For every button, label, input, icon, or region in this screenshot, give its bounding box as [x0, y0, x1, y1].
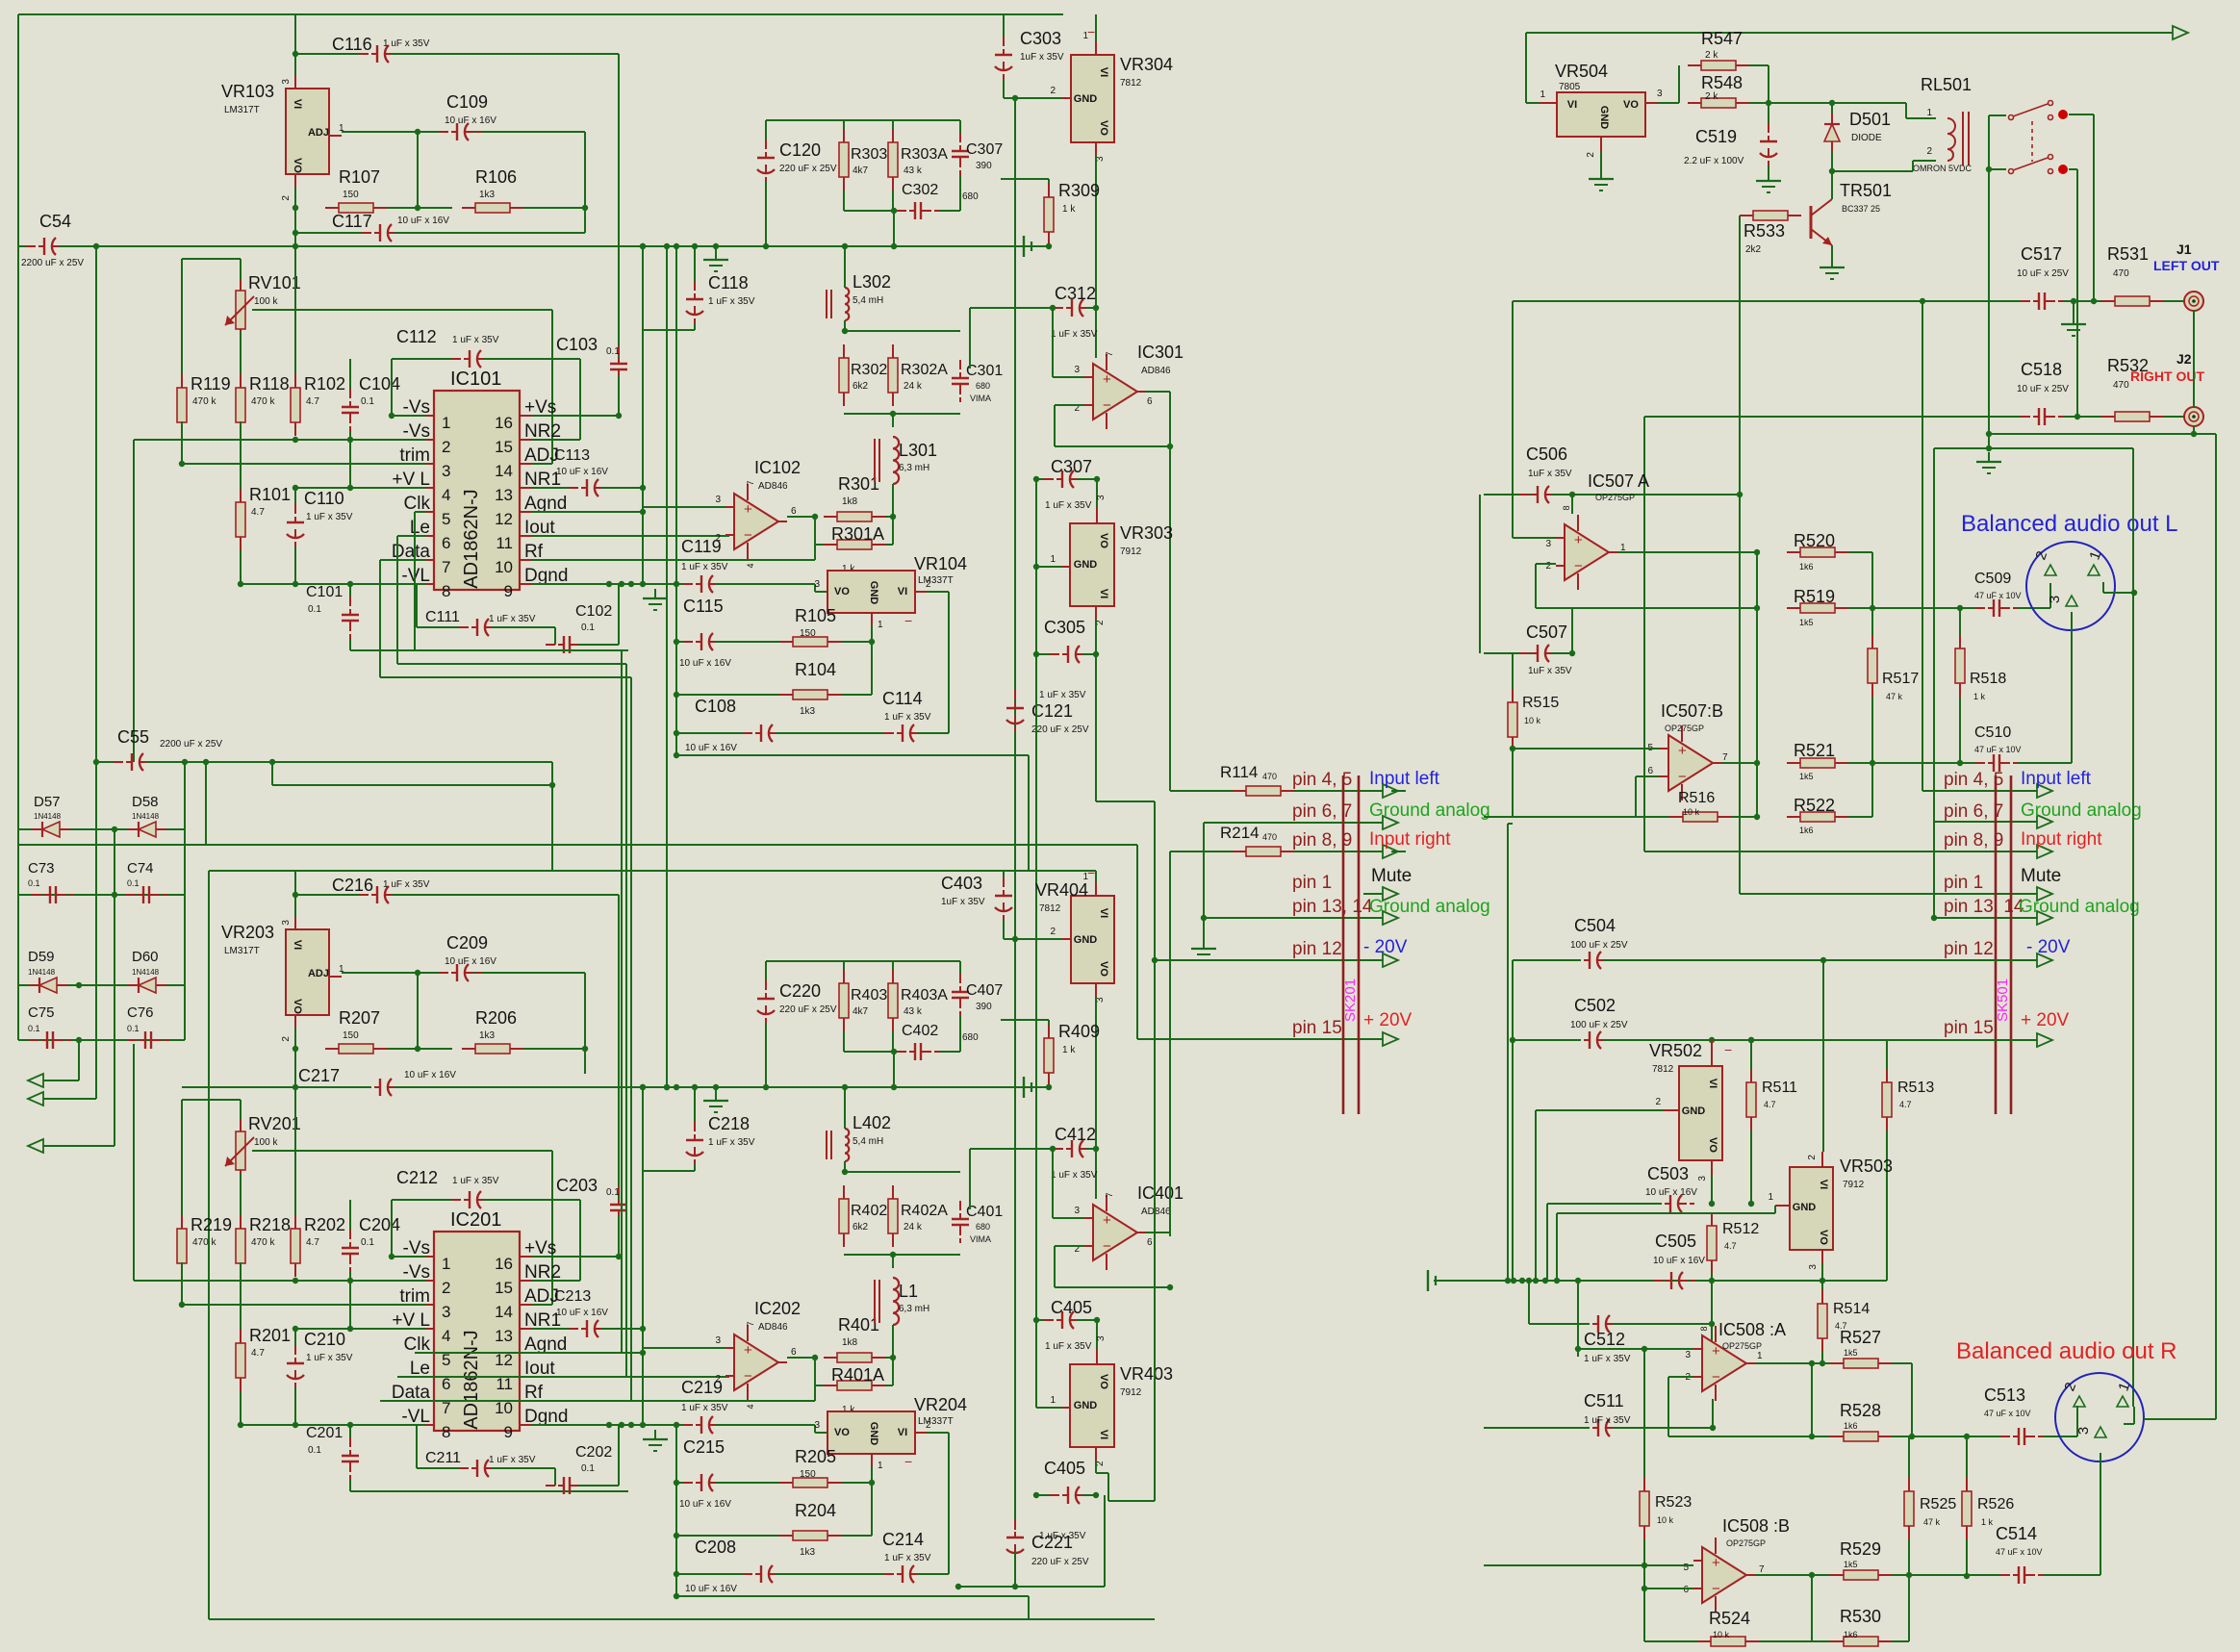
wire [843, 961, 845, 970]
svg-text:C201: C201 [306, 1425, 343, 1441]
op-amp IC507:B [1660, 725, 1721, 801]
svg-text:-VL: -VL [401, 1407, 430, 1427]
svg-text:1N4148: 1N4148 [28, 968, 56, 977]
feedback wire [1536, 607, 1757, 609]
svg-text:R526: R526 [1977, 1496, 2014, 1512]
wire [387, 1048, 452, 1050]
wire [959, 120, 961, 133]
wire [815, 591, 827, 593]
wire [892, 484, 894, 517]
junction [293, 1326, 298, 1332]
wire [1755, 1362, 1830, 1364]
junction [1093, 651, 1099, 657]
wire [1536, 563, 1556, 565]
wire [414, 512, 416, 650]
pin 1 stub [1062, 566, 1070, 568]
junction [293, 1046, 298, 1052]
svg-text:R519: R519 [1794, 587, 1835, 606]
capacitor C412 [1054, 1140, 1096, 1157]
pin 15 wire [1604, 1039, 2037, 1041]
inductor L402 [827, 1129, 849, 1161]
wire [380, 676, 631, 678]
svg-text:−: − [1103, 397, 1111, 414]
svg-text:47 uF x 10V: 47 uF x 10V [1996, 1547, 2043, 1557]
capacitor C215 [683, 1474, 725, 1491]
wire [182, 1099, 241, 1101]
svg-text:13: 13 [495, 1327, 513, 1345]
svg-text:IC508 :A: IC508 :A [1718, 1320, 1786, 1339]
pin 1 stub [426, 1256, 434, 1258]
svg-text:1k6: 1k6 [1799, 562, 1814, 572]
svg-text:+: + [1712, 1343, 1720, 1360]
svg-text:C73: C73 [28, 860, 55, 877]
wire [294, 895, 296, 929]
svg-text:GND: GND [1074, 1400, 1098, 1411]
svg-text:C109: C109 [446, 92, 488, 112]
svg-text:pin 1: pin 1 [1292, 873, 1332, 893]
capacitor C507 [1519, 645, 1562, 662]
junction [1526, 1278, 1532, 1283]
wire [1749, 102, 1769, 104]
svg-text:680: 680 [976, 381, 990, 391]
wire [1613, 1323, 1712, 1325]
svg-text:100 uF x 25V: 100 uF x 25V [1570, 1020, 1628, 1030]
wire [815, 544, 824, 546]
junction [674, 581, 679, 587]
analog ground bus [1434, 1280, 1887, 1282]
svg-text:1k5: 1k5 [1844, 1348, 1858, 1358]
junction [347, 1422, 353, 1428]
svg-text:R219: R219 [191, 1215, 232, 1234]
wire [531, 1352, 643, 1354]
svg-text:VR404: VR404 [1035, 880, 1088, 900]
svg-text:9: 9 [504, 582, 513, 600]
pin 2 stub [1062, 97, 1071, 99]
svg-text:C217: C217 [298, 1066, 340, 1085]
potentiometer RV201 [225, 1120, 254, 1182]
resistor R527 [1830, 1359, 1892, 1368]
svg-text:1 uF x 35V: 1 uF x 35V [681, 1403, 728, 1413]
junction [619, 1422, 624, 1428]
junction [293, 437, 298, 443]
wire [531, 463, 552, 465]
junction [293, 1278, 298, 1283]
junction [1569, 492, 1575, 497]
wire [1095, 997, 1097, 1199]
svg-text:Le: Le [410, 1359, 430, 1379]
junction [415, 970, 420, 976]
pin 15 wire [1137, 1038, 1383, 1040]
svg-text:Ground analog: Ground analog [1369, 897, 1490, 917]
svg-text:9: 9 [504, 1423, 513, 1441]
resistor R101 [236, 489, 245, 550]
capacitor C102 [546, 636, 588, 653]
svg-text:1k3: 1k3 [800, 1547, 816, 1558]
pin 2 stub [1062, 938, 1071, 940]
svg-text:−: − [1712, 1581, 1720, 1597]
wire [716, 583, 815, 585]
capacitor C203 [610, 1186, 627, 1229]
capacitor C303 [995, 37, 1012, 79]
wire [716, 1424, 815, 1426]
resistor R202 [291, 1215, 300, 1277]
svg-text:R517: R517 [1882, 671, 1919, 687]
svg-text:2200 uF x 25V: 2200 uF x 25V [21, 258, 84, 268]
svg-text:LM337T: LM337T [918, 575, 954, 586]
junction [2075, 414, 2080, 419]
svg-text:C202: C202 [575, 1444, 612, 1461]
capacitor C220 [757, 980, 775, 1023]
pin 2 stub [1821, 1152, 1823, 1167]
wire [531, 1280, 580, 1282]
resistor R520 [1787, 547, 1848, 557]
svg-text:3: 3 [1657, 89, 1663, 99]
svg-text:-VL: -VL [401, 566, 430, 586]
svg-text:2: 2 [1807, 1155, 1818, 1160]
wire [1479, 495, 1481, 653]
svg-text:IC202: IC202 [754, 1299, 801, 1318]
svg-text:VI: VI [1707, 1079, 1718, 1088]
svg-text:220 uF x 25V: 220 uF x 25V [779, 1004, 837, 1015]
junction [347, 1278, 353, 1283]
svg-text:VR502: VR502 [1649, 1041, 1702, 1060]
junction [1829, 168, 1835, 174]
resistor R513 [1882, 1069, 1892, 1131]
wire [1053, 1217, 1084, 1219]
power terminal [1428, 1270, 1436, 1291]
svg-text:VR304: VR304 [1120, 55, 1173, 74]
wire [1750, 1131, 1752, 1204]
svg-text:C116: C116 [332, 35, 372, 54]
pin 5 stub [426, 511, 434, 513]
voltage regulator VR104 [827, 571, 915, 613]
wire [134, 1280, 426, 1282]
wire [1668, 1436, 1832, 1437]
junction [1820, 957, 1826, 963]
svg-text:+: + [1712, 1555, 1720, 1571]
svg-text:C119: C119 [681, 537, 722, 556]
junction [1033, 651, 1039, 657]
wire [2076, 1406, 2078, 1436]
Clk bus wire [621, 650, 623, 1353]
pin 10 stub [520, 1400, 531, 1402]
junction [1575, 1278, 1581, 1283]
pin 2 stub [1600, 137, 1602, 152]
capacitor C109 [439, 123, 481, 140]
junction [891, 1084, 897, 1090]
wire [970, 1148, 1063, 1150]
wire [969, 1149, 971, 1209]
junction [640, 243, 646, 249]
wire [694, 323, 696, 330]
wire [1831, 152, 1833, 171]
wire [676, 1482, 693, 1484]
capacitor C120 [757, 140, 775, 182]
svg-text:pin 6, 7: pin 6, 7 [1944, 801, 2003, 822]
wire [349, 1200, 351, 1230]
svg-text:−: − [744, 1368, 752, 1385]
svg-text:AD1862N-J: AD1862N-J [461, 489, 482, 588]
svg-text:3: 3 [1697, 1176, 1708, 1182]
capacitor row wire [18, 1039, 185, 1041]
svg-text:C108: C108 [695, 697, 736, 716]
wire [939, 1051, 960, 1053]
wire [1055, 445, 1170, 447]
junction [1012, 1584, 1018, 1589]
wire [1668, 1376, 1693, 1378]
svg-text:1 uF x 35V: 1 uF x 35V [452, 1176, 499, 1186]
junction [842, 328, 848, 334]
resistor R402 [839, 1185, 849, 1247]
wire [349, 1272, 351, 1281]
wire [841, 1482, 872, 1484]
svg-text:220 uF x 25V: 220 uF x 25V [1031, 724, 1089, 735]
svg-text:L1: L1 [899, 1282, 918, 1301]
junction [1754, 605, 1760, 611]
wire [676, 694, 779, 696]
svg-text:3: 3 [1545, 539, 1551, 549]
svg-text:VI: VI [898, 1427, 907, 1438]
svg-text:R530: R530 [1840, 1607, 1881, 1626]
svg-text:VI: VI [292, 940, 303, 950]
svg-text:3: 3 [442, 462, 450, 480]
capacitor C514 [2000, 1566, 2043, 1584]
wire [295, 232, 371, 234]
wire [1028, 1596, 1030, 1619]
svg-text:2: 2 [926, 1420, 931, 1431]
capacitor C204 [342, 1230, 359, 1272]
svg-text:C220: C220 [779, 981, 821, 1001]
wire [1095, 156, 1097, 358]
svg-text:C307: C307 [1051, 457, 1092, 476]
svg-text:6k2: 6k2 [853, 381, 869, 392]
svg-text:10 uF x 16V: 10 uF x 16V [556, 1308, 608, 1318]
svg-text:-Vs: -Vs [403, 1262, 431, 1283]
svg-text:+ 20V: + 20V [2021, 1010, 2070, 1030]
svg-text:1 k: 1 k [1062, 204, 1076, 215]
pin 1 stub [871, 1454, 873, 1466]
svg-text:R527: R527 [1840, 1328, 1881, 1347]
svg-text:3: 3 [1685, 1350, 1691, 1360]
voltage regulator VR103 [286, 89, 329, 174]
wire [1036, 653, 1059, 655]
connector arrow [2037, 784, 2052, 798]
svg-text:1uF x 35V: 1uF x 35V [1528, 469, 1572, 479]
capacitor C512 [1580, 1315, 1622, 1333]
wire [349, 639, 351, 650]
svg-text:Ground analog: Ground analog [2019, 897, 2140, 917]
inductor L1 [875, 1278, 899, 1325]
wire [1905, 103, 1907, 118]
wire [2133, 1407, 2135, 1424]
op-amp IC507 A [1556, 515, 1617, 590]
wire [1644, 1640, 1697, 1642]
svg-text:1: 1 [1757, 1351, 1763, 1361]
wire [1054, 405, 1056, 446]
pin 2 stub [426, 439, 434, 441]
pin 9 stub [520, 1424, 531, 1426]
junction [1709, 1037, 1715, 1043]
wire [1055, 404, 1084, 406]
pin 12 stub [520, 511, 531, 513]
svg-text:1k5: 1k5 [1844, 1560, 1858, 1569]
pin 1 stub [329, 135, 342, 137]
resistor R516 [1669, 812, 1731, 822]
resistor R548 [1688, 98, 1749, 108]
wire [43, 1098, 96, 1100]
svg-text:1N4148: 1N4148 [34, 812, 62, 821]
wire [1949, 607, 1960, 609]
connector arrow [1383, 1032, 1398, 1046]
svg-text:1 uF x 35V: 1 uF x 35V [306, 1353, 353, 1363]
junction [203, 759, 209, 765]
wire [815, 1432, 827, 1434]
resistor R302 [839, 344, 849, 406]
svg-text:4: 4 [442, 1327, 450, 1345]
wire [1391, 790, 1406, 792]
svg-text:1: 1 [442, 414, 450, 432]
svg-text:1 k: 1 k [1981, 1517, 1994, 1527]
wire [426, 1376, 626, 1378]
wire [295, 1328, 426, 1330]
svg-text:1: 1 [1540, 89, 1545, 100]
wire [1107, 1473, 1109, 1501]
junction [890, 1355, 896, 1360]
svg-text:pin 8, 9: pin 8, 9 [1944, 830, 2003, 851]
svg-text:Mute: Mute [1371, 866, 1412, 886]
svg-text:R401A: R401A [831, 1365, 884, 1385]
ground wire [1989, 433, 2216, 435]
svg-text:VI: VI [1098, 908, 1109, 918]
junction [640, 1084, 646, 1090]
relay contact dot [2058, 110, 2068, 119]
svg-text:6k2: 6k2 [853, 1222, 869, 1233]
svg-text:470 k: 470 k [251, 396, 275, 407]
svg-text:10 k: 10 k [1657, 1515, 1674, 1525]
svg-text:C301: C301 [966, 363, 1003, 379]
power terminal [1024, 236, 1031, 257]
svg-text:pin 15: pin 15 [1944, 1018, 1994, 1038]
capacitor C121 [1006, 690, 1024, 732]
pin 7 stub [426, 559, 434, 561]
junction [1931, 915, 1937, 921]
svg-text:+: + [1678, 743, 1687, 759]
junction [549, 782, 555, 788]
svg-text:47 uF x 10V: 47 uF x 10V [1974, 745, 2022, 754]
wire [342, 972, 448, 974]
pin 1 stub [1062, 1407, 1070, 1409]
wire [2100, 1453, 2101, 1575]
wire [531, 1376, 729, 1378]
wire [181, 1262, 183, 1305]
resistor R522 [1787, 812, 1848, 822]
svg-text:680: 680 [976, 1222, 990, 1232]
junction [1754, 814, 1760, 820]
svg-text:1 uF x 35V: 1 uF x 35V [489, 1455, 536, 1465]
svg-text:220 uF x 25V: 220 uF x 25V [779, 164, 837, 174]
shield box top [1934, 447, 2133, 449]
svg-text:OP275GP: OP275GP [1722, 1341, 1762, 1351]
svg-text:6: 6 [1683, 1585, 1689, 1595]
capacitor C111 [459, 619, 501, 636]
power terminal [1024, 1077, 1031, 1098]
svg-text:3: 3 [814, 1420, 820, 1431]
wire [1892, 1574, 2010, 1576]
svg-text:6: 6 [1647, 766, 1653, 776]
voltage regulator VR403 [1070, 1364, 1114, 1447]
svg-text:8: 8 [1699, 1326, 1709, 1331]
wire [1004, 938, 1015, 940]
wire [1643, 1349, 1645, 1478]
junction [640, 1326, 646, 1332]
svg-text:R107: R107 [339, 167, 380, 187]
pin 14 stub [520, 1304, 531, 1306]
op-amp IC401 [1084, 1195, 1146, 1270]
ground [643, 589, 668, 610]
junction [1152, 957, 1158, 963]
pin 4 stub [426, 1328, 434, 1330]
svg-text:AD1862N-J: AD1862N-J [461, 1330, 482, 1429]
wire [1667, 1377, 1669, 1436]
junction [112, 826, 117, 832]
pin 8 stub [426, 583, 434, 585]
svg-text:16: 16 [495, 414, 513, 432]
svg-text:1: 1 [1050, 1395, 1056, 1406]
svg-text:trim: trim [399, 1286, 430, 1307]
wire [1821, 1281, 1823, 1290]
svg-text:3: 3 [715, 1335, 721, 1346]
wire [1571, 608, 1573, 653]
wire [917, 732, 949, 734]
junction [606, 581, 612, 587]
wire [844, 1171, 960, 1173]
connector SK201 [1342, 775, 1345, 1114]
svg-text:3: 3 [2075, 1427, 2092, 1435]
junction [1820, 1360, 1825, 1366]
svg-text:IC201: IC201 [450, 1209, 501, 1231]
mute wire [1740, 893, 2037, 895]
junction [1093, 1492, 1099, 1498]
svg-text:C512: C512 [1584, 1330, 1625, 1349]
connector arrow [2037, 887, 2052, 901]
inductor L301 [875, 437, 899, 484]
wire [2073, 301, 2075, 315]
svg-text:VIMA: VIMA [970, 394, 991, 403]
wire [776, 732, 894, 734]
junction [1809, 1434, 1815, 1439]
svg-text:trim: trim [399, 445, 430, 466]
svg-text:R403: R403 [851, 987, 887, 1004]
wire [1294, 851, 1383, 852]
svg-text:C110: C110 [304, 489, 344, 508]
wire [1484, 494, 1532, 496]
svg-text:470: 470 [1262, 832, 1277, 842]
svg-text:−: − [1087, 865, 1095, 880]
wire [1871, 697, 1873, 763]
wire [716, 1482, 779, 1484]
wire [939, 210, 960, 212]
svg-text:OP275GP: OP275GP [1726, 1538, 1766, 1548]
junction [842, 1169, 848, 1175]
svg-text:1k8: 1k8 [842, 1337, 858, 1348]
-20V wire [1095, 1461, 1097, 1473]
svg-text:6: 6 [1147, 396, 1153, 407]
wire [1048, 1086, 1050, 1087]
pin 1 stub [1095, 41, 1097, 55]
pin 5 stub [426, 1352, 434, 1354]
wire [1535, 564, 1537, 608]
svg-text:R401: R401 [838, 1315, 879, 1334]
